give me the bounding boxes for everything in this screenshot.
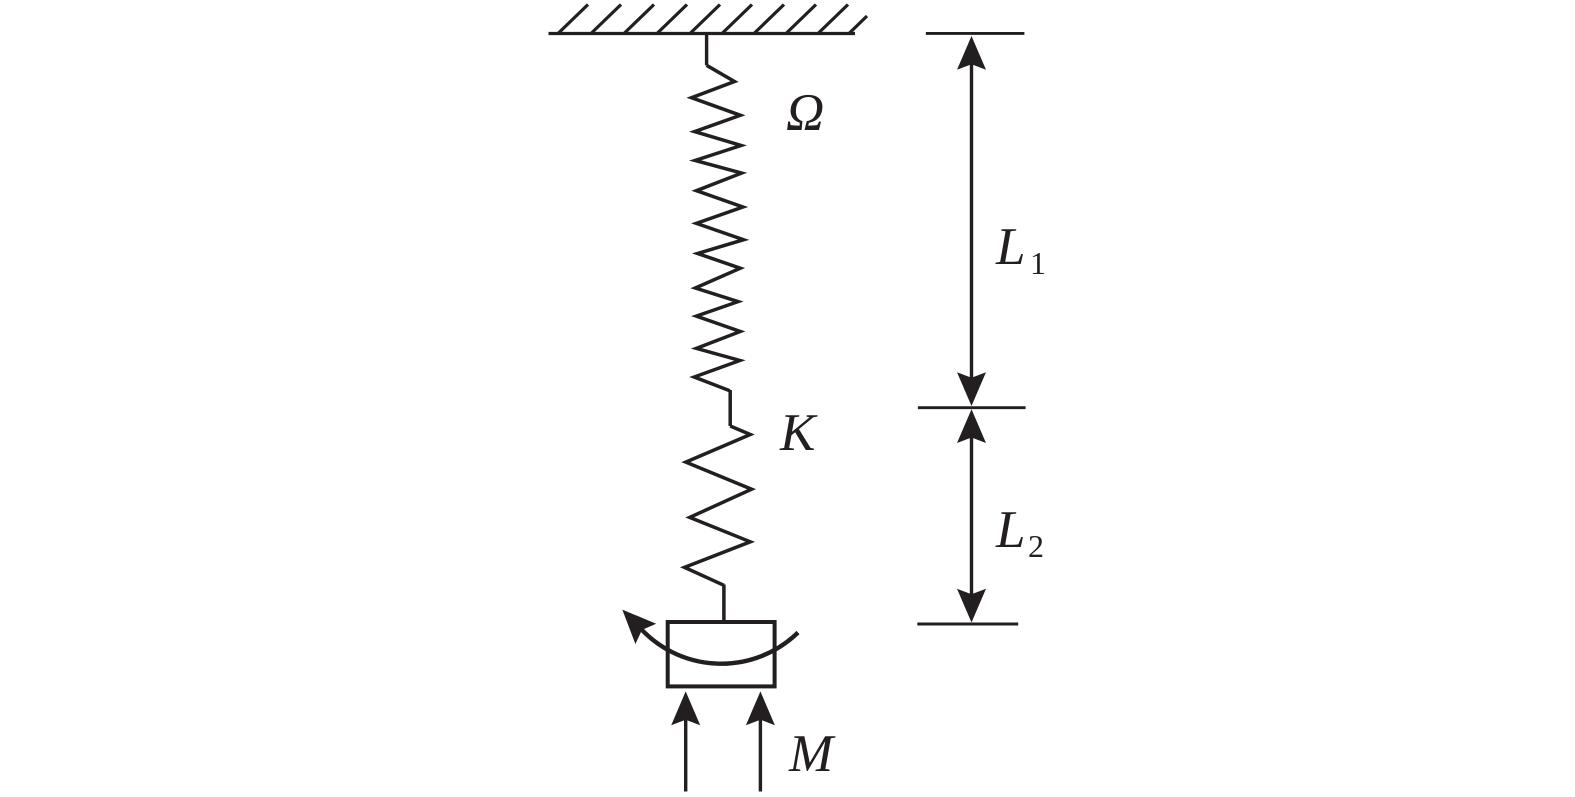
shaft of left force arrow [684,697,687,792]
dimension shaft L1 [970,60,973,382]
shaft of right force arrow [759,697,762,792]
svg-text:2: 2 [1028,528,1044,564]
dimension tick middle [918,406,1026,409]
wire from ceiling to spring Omega [705,34,708,66]
svg-text:1: 1 [1030,245,1046,281]
svg-text:L: L [995,501,1025,559]
dimension tick bottom [917,623,1018,626]
mass M rectangle [668,622,775,686]
ceiling hatch marks [558,5,867,34]
arrowhead of rotation arc [622,610,656,644]
dimension shaft L2 [970,433,973,598]
wire between springs [728,390,732,426]
rotation arc over mass [638,626,798,664]
arrowhead L1 up [957,36,986,70]
svg-text:L: L [995,218,1025,276]
wire from spring K to mass [722,585,726,623]
arrowhead left force arrow [671,691,700,725]
ceiling line [549,32,856,35]
spring K (lower spring) [685,426,752,585]
dimension tick top [926,32,1025,35]
arrowhead L2 up [957,409,986,443]
svg-text:M: M [788,725,836,783]
spring Omega (upper spring) [692,65,744,391]
svg-text:K: K [779,404,818,462]
arrowhead L2 down [957,589,986,623]
svg-text:Ω: Ω [786,84,824,142]
arrowhead right force arrow [746,691,775,725]
arrowhead L1 down [957,372,986,406]
